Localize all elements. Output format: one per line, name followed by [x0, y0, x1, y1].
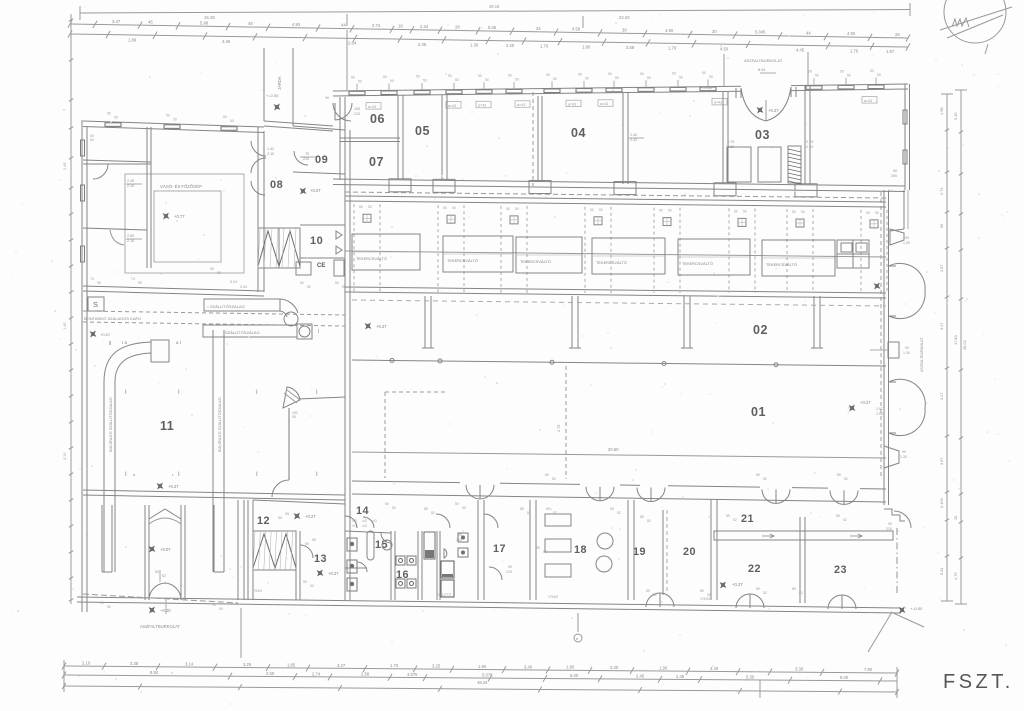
svg-text:+0.27: +0.27 — [168, 484, 179, 489]
svg-text:50: 50 — [114, 115, 118, 119]
svg-text:52: 52 — [307, 285, 311, 289]
svg-text:TEKERCSVÁLTÓ: TEKERCSVÁLTÓ — [520, 259, 551, 264]
svg-text:50: 50 — [866, 211, 870, 215]
svg-text:50: 50 — [107, 111, 111, 115]
svg-text:I: I — [318, 329, 319, 335]
svg-text:74: 74 — [131, 277, 135, 281]
svg-text:09: 09 — [315, 154, 328, 166]
svg-text:89: 89 — [546, 507, 550, 511]
svg-text:7.80: 7.80 — [864, 667, 873, 672]
svg-text:2.105: 2.105 — [939, 498, 944, 508]
svg-text:a=43: a=43 — [600, 102, 608, 106]
svg-text:50: 50 — [702, 71, 706, 75]
svg-text:05: 05 — [312, 538, 316, 542]
svg-text:90: 90 — [902, 450, 906, 454]
svg-text:10: 10 — [310, 235, 323, 247]
svg-text:200: 200 — [891, 174, 897, 178]
svg-text:50: 50 — [640, 72, 644, 76]
svg-text:90: 90 — [107, 605, 111, 609]
svg-text:02: 02 — [753, 323, 768, 337]
svg-text:3.25: 3.25 — [432, 664, 441, 669]
svg-text:52: 52 — [617, 511, 621, 515]
svg-text:a=43: a=43 — [714, 101, 722, 105]
svg-text:50: 50 — [230, 119, 234, 123]
svg-text:50: 50 — [546, 73, 550, 77]
svg-text:50: 50 — [608, 72, 612, 76]
svg-text:50: 50 — [173, 117, 177, 121]
svg-text:96: 96 — [325, 96, 329, 100]
svg-text:19: 19 — [633, 546, 646, 558]
svg-text:ASZFALTBURKOLAT: ASZFALTBURKOLAT — [744, 58, 783, 63]
svg-text:46: 46 — [148, 20, 153, 25]
svg-text:+0.27: +0.27 — [860, 400, 871, 405]
svg-text:50: 50 — [359, 205, 363, 209]
svg-text:KÜLÖNLEG SZÁLLÍTÓSZALAG: KÜLÖNLEG SZÁLLÍTÓSZALAG — [108, 397, 113, 452]
svg-text:1.70: 1.70 — [668, 46, 677, 51]
svg-text:05: 05 — [285, 512, 289, 516]
svg-text:95: 95 — [97, 281, 101, 285]
svg-text:50: 50 — [506, 207, 510, 211]
svg-text:2.50: 2.50 — [266, 671, 275, 676]
svg-text:52: 52 — [310, 584, 314, 588]
svg-text:2.95: 2.95 — [876, 412, 883, 416]
svg-text:210: 210 — [303, 157, 309, 161]
svg-text:+0.27: +0.27 — [305, 514, 316, 519]
svg-text:5.98: 5.98 — [200, 20, 209, 25]
svg-text:8.04: 8.04 — [758, 68, 765, 72]
svg-text:2.74: 2.74 — [312, 671, 321, 676]
svg-text:90: 90 — [893, 169, 897, 173]
svg-text:100: 100 — [354, 107, 360, 111]
svg-text:3.30: 3.30 — [610, 665, 619, 670]
svg-text:90: 90 — [888, 522, 892, 526]
svg-text:1.80: 1.80 — [582, 44, 591, 49]
svg-text:2.87: 2.87 — [939, 264, 944, 272]
svg-text:BONTANDÓ SZALAGOS KAPU: BONTANDÓ SZALAGOS KAPU — [84, 316, 141, 321]
svg-text:50: 50 — [515, 207, 519, 211]
svg-text:50: 50 — [485, 78, 489, 82]
svg-text:1.97: 1.97 — [886, 49, 895, 54]
svg-text:5.00: 5.00 — [570, 673, 579, 678]
svg-text:4.45: 4.45 — [796, 48, 805, 53]
svg-text:×G: ×G — [362, 524, 367, 528]
svg-text:50: 50 — [358, 79, 362, 83]
svg-text:90: 90 — [219, 607, 223, 611]
svg-text:52: 52 — [843, 518, 847, 522]
svg-text:+–0.00: +–0.00 — [910, 606, 923, 611]
svg-text:50: 50 — [679, 75, 683, 79]
svg-text:50: 50 — [553, 77, 557, 81]
svg-text:89: 89 — [792, 587, 796, 591]
svg-text:TEKERCSVÁLTÓ: TEKERCSVÁLTÓ — [447, 258, 478, 263]
svg-text:95: 95 — [138, 281, 142, 285]
svg-text:50: 50 — [585, 77, 589, 81]
svg-text:2.10: 2.10 — [127, 239, 134, 243]
svg-text:50: 50 — [383, 75, 387, 79]
svg-text:2.64: 2.64 — [348, 41, 357, 46]
svg-text:52: 52 — [543, 550, 547, 554]
svg-text:a=43: a=43 — [478, 103, 486, 107]
svg-text:50: 50 — [155, 570, 159, 574]
svg-text:2.20: 2.20 — [506, 43, 515, 48]
svg-text:08: 08 — [270, 179, 283, 191]
svg-text:ASZFALTBURKOLAT: ASZFALTBURKOLAT — [140, 624, 181, 629]
svg-text:50: 50 — [590, 208, 594, 212]
svg-text:TEKERCSVÁLTÓ: TEKERCSVÁLTÓ — [596, 260, 627, 265]
svg-text:2.97: 2.97 — [876, 407, 883, 411]
svg-text:52: 52 — [799, 591, 803, 595]
svg-text:+0.57: +0.57 — [100, 332, 111, 337]
svg-text:+0.07: +0.07 — [160, 547, 171, 552]
svg-text:44: 44 — [341, 23, 346, 28]
svg-text:06: 06 — [370, 112, 385, 126]
svg-text:52: 52 — [553, 511, 557, 515]
svg-text:13: 13 — [314, 553, 327, 565]
svg-text:2.45: 2.45 — [676, 674, 685, 679]
svg-text:89: 89 — [646, 589, 650, 593]
svg-text:52: 52 — [763, 591, 767, 595]
svg-text:+0.07: +0.07 — [310, 188, 321, 193]
svg-text:75: 75 — [305, 152, 309, 156]
svg-text:a=43: a=43 — [517, 103, 525, 107]
svg-text:15: 15 — [953, 516, 958, 520]
svg-text:90: 90 — [905, 346, 909, 350]
svg-text:4.58: 4.58 — [572, 27, 581, 32]
svg-text:CE: CE — [317, 263, 325, 269]
svg-text:89: 89 — [756, 473, 760, 477]
svg-text:3.47: 3.47 — [939, 322, 944, 330]
svg-text:2.75: 2.75 — [557, 425, 561, 432]
svg-text:1.90: 1.90 — [478, 664, 487, 669]
svg-text:I a: I a — [122, 340, 128, 345]
svg-text:2.10: 2.10 — [267, 152, 274, 156]
svg-text:52: 52 — [763, 477, 767, 481]
svg-text:1.30: 1.30 — [900, 455, 907, 459]
svg-text:175•05: 175•05 — [252, 589, 262, 593]
svg-text:2.49: 2.49 — [63, 163, 67, 170]
svg-text:30: 30 — [622, 27, 627, 32]
svg-text:11: 11 — [160, 419, 174, 433]
svg-text:3.38: 3.38 — [130, 661, 139, 666]
svg-text:2.20: 2.20 — [806, 145, 813, 149]
svg-text:50: 50 — [840, 69, 844, 73]
svg-text:50: 50 — [870, 69, 874, 73]
svg-text:1.36: 1.36 — [470, 43, 479, 48]
svg-text:1.40: 1.40 — [63, 323, 67, 330]
svg-text:44: 44 — [806, 30, 811, 35]
svg-text:5.05: 5.05 — [488, 25, 497, 30]
svg-text:5.31: 5.31 — [939, 567, 944, 575]
svg-text:50: 50 — [210, 267, 214, 271]
svg-text:+0.27: +0.27 — [732, 582, 743, 587]
svg-text:1.90: 1.90 — [659, 666, 668, 671]
svg-text:2.49: 2.49 — [127, 179, 134, 183]
svg-text:3.04: 3.04 — [240, 285, 247, 289]
svg-text:26.02: 26.02 — [962, 340, 967, 350]
svg-text:01: 01 — [751, 405, 766, 419]
svg-text:05: 05 — [415, 124, 430, 138]
svg-text:a I: a I — [176, 340, 181, 345]
svg-text:2.42: 2.42 — [630, 138, 637, 142]
svg-text:52: 52 — [431, 511, 435, 515]
svg-text:52: 52 — [844, 477, 848, 481]
svg-text:50: 50 — [578, 73, 582, 77]
svg-text:2.74: 2.74 — [372, 23, 381, 28]
svg-text:3.25: 3.25 — [243, 662, 252, 667]
svg-text:1.70: 1.70 — [540, 44, 549, 49]
svg-text:50: 50 — [668, 209, 672, 213]
svg-text:2.75: 2.75 — [727, 140, 734, 144]
svg-text:20: 20 — [683, 546, 696, 558]
svg-text:90: 90 — [212, 603, 216, 607]
svg-text:89: 89 — [520, 507, 524, 511]
svg-text:1.42: 1.42 — [267, 147, 274, 151]
svg-text:89: 89 — [610, 507, 614, 511]
svg-text:30: 30 — [712, 29, 717, 34]
svg-text:50: 50 — [515, 77, 519, 81]
svg-text:50: 50 — [647, 76, 651, 80]
svg-text:89: 89 — [756, 587, 760, 591]
svg-text:1.80: 1.80 — [566, 665, 575, 670]
svg-text:3.30: 3.30 — [795, 667, 804, 672]
svg-text:50: 50 — [300, 281, 304, 285]
svg-text:50: 50 — [455, 502, 459, 506]
svg-text:50: 50 — [390, 79, 394, 83]
svg-text:17: 17 — [493, 543, 506, 555]
svg-text:52: 52 — [647, 519, 651, 523]
svg-text:07: 07 — [369, 155, 384, 169]
svg-text:4.75: 4.75 — [953, 572, 958, 580]
svg-text:50: 50 — [392, 506, 396, 510]
svg-text:50: 50 — [792, 210, 796, 214]
svg-text:50: 50 — [351, 75, 355, 79]
svg-text:50: 50 — [303, 580, 307, 584]
svg-text:50: 50 — [815, 74, 819, 78]
svg-text:50: 50 — [875, 211, 879, 215]
svg-text:89: 89 — [837, 473, 841, 477]
svg-text:52: 52 — [552, 477, 556, 481]
svg-text:JÁRDA: JÁRDA — [277, 76, 282, 90]
svg-text:52: 52 — [162, 574, 166, 578]
svg-text:2.75: 2.75 — [806, 140, 813, 144]
svg-text:89: 89 — [536, 546, 540, 550]
svg-text:210: 210 — [354, 112, 360, 116]
svg-text:3.47: 3.47 — [112, 19, 121, 24]
svg-text:50: 50 — [462, 506, 466, 510]
svg-text:TEKERCSVÁLTÓ: TEKERCSVÁLTÓ — [766, 262, 797, 267]
svg-text:50: 50 — [508, 73, 512, 77]
svg-text:50: 50 — [847, 73, 851, 77]
svg-text:08: 08 — [292, 415, 296, 419]
svg-text:5.045: 5.045 — [755, 30, 766, 35]
svg-text:20.60: 20.60 — [608, 447, 619, 452]
svg-text:50: 50 — [305, 542, 309, 546]
svg-text:48.24: 48.24 — [477, 680, 488, 685]
svg-text:VÁGÓ- ÉS FŐZŐGÉP: VÁGÓ- ÉS FŐZŐGÉP — [160, 184, 202, 189]
svg-text:2.71: 2.71 — [939, 187, 944, 195]
svg-text:50: 50 — [416, 75, 420, 79]
svg-text:a=43: a=43 — [864, 99, 872, 103]
svg-text:2.20: 2.20 — [727, 145, 734, 149]
svg-text:3.10: 3.10 — [63, 453, 67, 460]
svg-text:4.93: 4.93 — [292, 22, 301, 27]
svg-text:+0.27: +0.27 — [328, 571, 339, 576]
svg-text:18: 18 — [398, 24, 403, 29]
svg-text:+0.27: +0.27 — [768, 108, 779, 113]
svg-text:50: 50 — [478, 74, 482, 78]
svg-text:50: 50 — [672, 71, 676, 75]
svg-text:89: 89 — [640, 515, 644, 519]
svg-text:50: 50 — [743, 209, 747, 213]
svg-text:5.10: 5.10 — [953, 112, 958, 120]
svg-text:210: 210 — [456, 538, 462, 542]
svg-text:1.70: 1.70 — [390, 663, 399, 668]
svg-text:89: 89 — [545, 473, 549, 477]
svg-text:03: 03 — [755, 128, 770, 142]
svg-text:3.58: 3.58 — [626, 45, 635, 50]
svg-text:4.90: 4.90 — [665, 28, 674, 33]
svg-text:50: 50 — [734, 209, 738, 213]
svg-text:50: 50 — [455, 78, 459, 82]
svg-text:1.85: 1.85 — [287, 662, 296, 667]
svg-text:50: 50 — [452, 206, 456, 210]
svg-text:74: 74 — [90, 277, 94, 281]
svg-text:89: 89 — [836, 514, 840, 518]
svg-text:89: 89 — [726, 514, 730, 518]
svg-text:50: 50 — [335, 281, 339, 285]
svg-text:175•05: 175•05 — [700, 597, 710, 601]
svg-text:a=43: a=43 — [368, 105, 376, 109]
svg-text:50: 50 — [223, 115, 227, 119]
svg-text:23: 23 — [834, 564, 847, 576]
svg-text:52: 52 — [653, 593, 657, 597]
svg-text:50: 50 — [278, 516, 282, 520]
svg-text:52: 52 — [217, 271, 221, 275]
svg-text:12: 12 — [257, 515, 270, 527]
svg-text:50: 50 — [659, 209, 663, 213]
svg-text:1.89: 1.89 — [128, 37, 137, 42]
svg-text:3.575: 3.575 — [407, 672, 418, 677]
svg-text:2.47: 2.47 — [939, 392, 944, 400]
svg-text:50: 50 — [709, 75, 713, 79]
svg-text:50: 50 — [448, 74, 452, 78]
svg-text:50: 50 — [808, 70, 812, 74]
svg-text:22.60: 22.60 — [619, 15, 630, 20]
svg-text:50: 50 — [615, 76, 619, 80]
svg-text:2.45: 2.45 — [636, 674, 645, 679]
svg-text:89: 89 — [700, 589, 704, 593]
svg-text:90: 90 — [458, 533, 462, 537]
svg-text:+–0.00: +–0.00 — [700, 85, 713, 90]
svg-text:2.50: 2.50 — [127, 234, 134, 238]
svg-text:28: 28 — [455, 25, 460, 30]
svg-text:+0.77: +0.77 — [174, 214, 185, 219]
svg-text:2.58: 2.58 — [361, 672, 370, 677]
svg-text:8.92: 8.92 — [150, 670, 159, 675]
svg-text:90: 90 — [905, 236, 909, 240]
svg-text:3.40: 3.40 — [524, 664, 533, 669]
svg-text:4.27: 4.27 — [337, 663, 346, 668]
svg-text:15.38: 15.38 — [204, 15, 215, 20]
svg-text:BRUTTÓ: BRUTTÓ — [438, 592, 452, 597]
svg-text:4.50: 4.50 — [720, 46, 729, 51]
svg-text:4.90: 4.90 — [847, 31, 856, 36]
svg-text:5.30: 5.30 — [746, 674, 755, 679]
svg-text:50: 50 — [385, 502, 389, 506]
svg-text:50: 50 — [443, 206, 447, 210]
svg-text:18: 18 — [574, 544, 587, 556]
svg-text:5.00: 5.00 — [840, 675, 849, 680]
svg-text:2.10: 2.10 — [82, 661, 91, 666]
svg-text:KÜLÖNLEG SZÁLLÍTÓSZALAG: KÜLÖNLEG SZÁLLÍTÓSZALAG — [217, 397, 222, 452]
svg-text:×G: ×G — [362, 519, 367, 523]
svg-text:14: 14 — [356, 505, 369, 517]
svg-text:50: 50 — [599, 208, 603, 212]
svg-text:52: 52 — [527, 511, 531, 515]
svg-text:5.04: 5.04 — [230, 280, 237, 284]
svg-text:ASZFALTBURKOLAT: ASZFALTBURKOLAT — [920, 337, 924, 372]
svg-text:4.58: 4.58 — [939, 107, 944, 115]
svg-text:SZÁLLÍTÓSZALAG: SZÁLLÍTÓSZALAG — [210, 304, 245, 309]
svg-text:TEKERCSVÁLTÓ: TEKERCSVÁLTÓ — [682, 261, 713, 266]
svg-text:1.30: 1.30 — [903, 241, 910, 245]
svg-text:1.70: 1.70 — [850, 49, 859, 54]
svg-text:22: 22 — [748, 563, 761, 575]
svg-text:a=43: a=43 — [568, 102, 576, 106]
svg-text:21: 21 — [741, 513, 754, 525]
svg-text:89: 89 — [424, 507, 428, 511]
svg-text:50: 50 — [877, 73, 881, 77]
svg-text:a=43: a=43 — [448, 104, 456, 108]
svg-text:52: 52 — [733, 518, 737, 522]
svg-text:3.67: 3.67 — [939, 457, 944, 465]
svg-text:175•05: 175•05 — [548, 595, 558, 599]
svg-text:28: 28 — [895, 32, 900, 37]
svg-text:S: S — [93, 300, 98, 309]
svg-text:2.10: 2.10 — [127, 184, 134, 188]
svg-text:TEKERCSVÁLTÓ: TEKERCSVÁLTÓ — [356, 256, 387, 261]
svg-text:04: 04 — [571, 126, 586, 140]
svg-text:FSZT.: FSZT. — [943, 671, 1014, 693]
svg-text:2.34: 2.34 — [420, 24, 429, 29]
svg-text:50: 50 — [90, 138, 94, 142]
svg-text:90: 90 — [508, 565, 512, 569]
svg-text:210: 210 — [886, 527, 892, 531]
svg-text:SZÁLLÍTÓSZALAG: SZÁLLÍTÓSZALAG — [225, 330, 260, 335]
svg-text:3.14: 3.14 — [185, 662, 194, 667]
svg-text:2.35: 2.35 — [418, 42, 427, 47]
svg-text:50: 50 — [801, 210, 805, 214]
svg-text:50: 50 — [368, 205, 372, 209]
svg-text:48: 48 — [248, 21, 253, 26]
svg-text:50: 50 — [166, 113, 170, 117]
svg-text:90: 90 — [100, 601, 104, 605]
svg-text:49.18: 49.18 — [489, 4, 500, 9]
svg-text:3.46: 3.46 — [222, 39, 231, 44]
svg-text:+0.27: +0.27 — [376, 324, 387, 329]
svg-text:210: 210 — [506, 570, 512, 574]
svg-text:17.80: 17.80 — [953, 334, 958, 345]
svg-text:1.30: 1.30 — [903, 351, 910, 355]
svg-text:34: 34 — [536, 26, 541, 31]
svg-text:50: 50 — [423, 79, 427, 83]
svg-text:4.40: 4.40 — [710, 666, 719, 671]
svg-text:1.40: 1.40 — [630, 133, 637, 137]
